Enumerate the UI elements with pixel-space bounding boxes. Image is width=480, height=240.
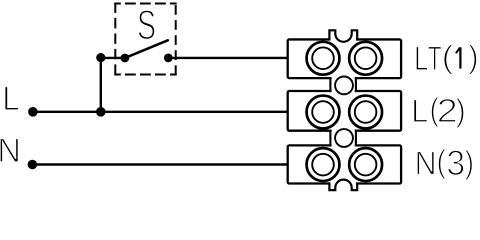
svg-text:N: N (415, 144, 437, 182)
svg-text:L: L (414, 40, 428, 77)
svg-text:3: 3 (446, 144, 465, 183)
svg-text:): ) (468, 39, 478, 76)
svg-text:): ) (456, 91, 466, 128)
svg-text:N: N (0, 132, 21, 170)
svg-text:(: ( (442, 39, 454, 76)
svg-text:T: T (428, 40, 442, 78)
svg-text:): ) (465, 145, 474, 181)
svg-text:2: 2 (437, 91, 458, 129)
svg-text:(: ( (437, 144, 447, 180)
svg-text:S: S (137, 1, 156, 48)
svg-text:L: L (411, 92, 428, 129)
svg-text:L: L (2, 79, 20, 117)
